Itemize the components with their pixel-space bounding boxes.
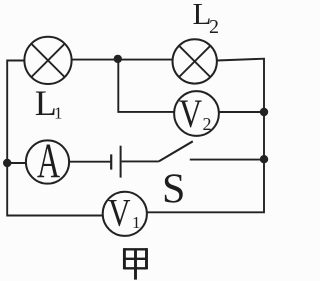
svg-text:1: 1 xyxy=(54,104,63,123)
svg-text:2: 2 xyxy=(203,114,212,134)
svg-text:S: S xyxy=(162,167,185,213)
svg-text:2: 2 xyxy=(209,16,219,38)
svg-text:V: V xyxy=(179,91,202,135)
svg-text:1: 1 xyxy=(132,213,141,232)
svg-text:V: V xyxy=(108,191,131,234)
svg-text:A: A xyxy=(37,135,60,190)
